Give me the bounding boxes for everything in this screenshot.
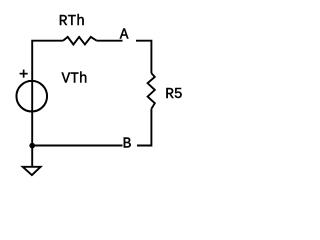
wire: top-right segment from node A down to R5 <box>136 41 151 73</box>
voltage source VTh <box>16 70 47 112</box>
resistor R5 <box>148 73 155 109</box>
ground <box>23 167 41 175</box>
wire: top middle segment from RTh to node A <box>97 40 123 42</box>
resistor RTh <box>63 37 97 45</box>
wire: top-left segment from source top corner to RTh <box>32 41 63 167</box>
svg-text:R5: R5 <box>165 87 182 103</box>
wire: right segment from R5 down to node B corner <box>137 109 151 146</box>
svg-text:RTh: RTh <box>59 14 85 30</box>
wire: bottom segment from junction to node B <box>32 145 123 147</box>
svg-text:A: A <box>120 28 129 44</box>
svg-text:VTh: VTh <box>62 71 88 87</box>
svg-text:B: B <box>123 136 132 152</box>
junction: node at source minus / bottom wire <box>29 143 35 149</box>
